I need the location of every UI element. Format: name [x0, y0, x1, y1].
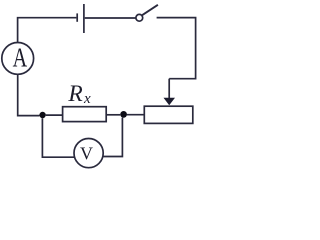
wire switch to top-right corner and down right side [157, 18, 196, 79]
resistor Rx body [63, 107, 107, 122]
voltmeter V1 body [74, 139, 103, 168]
wire resistor Rx to node B [106, 114, 120, 116]
svg-text:Rx: Rx [67, 81, 91, 107]
wire node B to rheostat R2 [127, 114, 144, 116]
rheostat wiper arrowhead [164, 98, 176, 106]
wire top-left: ammeter top to corner to battery [18, 18, 77, 43]
wire node A down to voltmeter [42, 118, 74, 157]
rheostat wiper arrow shaft [168, 79, 170, 99]
svg-text:A: A [13, 44, 28, 74]
svg-text:V: V [80, 143, 93, 163]
battery B1 short plate (negative) [76, 13, 78, 21]
switch S1 pivot circle [136, 14, 143, 21]
ammeter A1 body [2, 43, 34, 75]
rheostat R2 body [144, 106, 193, 123]
junction node B [120, 111, 127, 118]
wire battery to switch [85, 17, 136, 19]
junction node A [39, 112, 45, 118]
switch S1 lever arm [142, 5, 158, 15]
wire node A to resistor Rx [46, 114, 63, 116]
wire voltmeter to node B [103, 118, 123, 157]
battery B1 long plate (positive) [83, 4, 85, 33]
wire middle: left corner from ammeter to node A [18, 74, 40, 115]
